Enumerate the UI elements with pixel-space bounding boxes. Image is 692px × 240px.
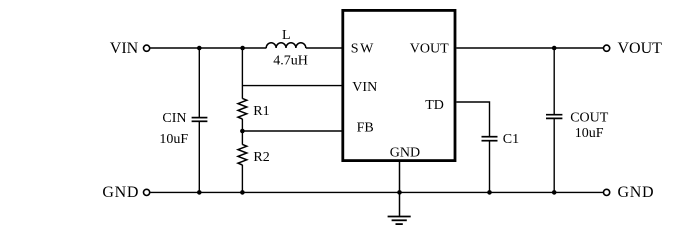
junction IC-GND/GND node <box>397 190 402 195</box>
wire inductor to SW pin <box>306 47 342 49</box>
junction VIN/R-divider node <box>240 46 245 51</box>
capacitor C1 <box>482 137 498 141</box>
wire IC GND pin to earth <box>399 161 401 216</box>
svg-text:COUT: COUT <box>570 110 609 125</box>
wire COUT to GND rail <box>553 119 555 192</box>
wire GND rail <box>150 191 603 193</box>
wire FB junction to R2 <box>241 131 243 145</box>
svg-text:CIN: CIN <box>162 111 186 126</box>
wire COUT branch upper <box>553 48 555 114</box>
svg-text:VIN: VIN <box>110 40 139 57</box>
node GND right terminal <box>604 189 610 195</box>
wire CIN branch lower <box>198 122 200 192</box>
IC U1 body <box>343 10 455 160</box>
wire R1 to FB junction <box>241 119 243 131</box>
junction R2/GND node <box>240 190 245 195</box>
node GND left terminal <box>144 189 150 195</box>
svg-text:10uF: 10uF <box>159 132 188 147</box>
svg-text:L: L <box>282 28 291 43</box>
capacitor COUT <box>546 115 562 119</box>
svg-text:4.7uH: 4.7uH <box>273 53 308 68</box>
junction VIN/CIN node <box>197 46 202 51</box>
svg-text:TD: TD <box>425 98 444 113</box>
wire R2 to GND rail <box>241 165 243 193</box>
wire R-divider upper <box>241 48 243 99</box>
resistor R2 <box>238 144 247 165</box>
svg-text:R2: R2 <box>253 150 269 165</box>
wire VIN pin tap <box>242 85 341 87</box>
ground symbol <box>388 217 411 225</box>
svg-text:FB: FB <box>357 120 374 135</box>
wire CIN branch upper <box>198 48 200 117</box>
node VOUT output terminal <box>604 45 610 51</box>
svg-text:R1: R1 <box>253 104 269 119</box>
junction FB divider node <box>240 129 245 134</box>
wire FB pin tap <box>242 130 341 132</box>
svg-text:C1: C1 <box>503 132 519 147</box>
resistor R1 <box>238 98 247 119</box>
wire VIN terminal to inductor <box>150 47 266 49</box>
inductor L <box>266 43 306 48</box>
junction COUT/GND node <box>552 190 557 195</box>
junction VOUT/COUT node <box>552 46 557 51</box>
wire C1 to GND rail <box>489 141 491 192</box>
wire VOUT pin to output terminal <box>456 47 603 49</box>
junction CIN/GND node <box>197 190 202 195</box>
capacitor CIN <box>192 118 208 122</box>
svg-text:SW: SW <box>351 42 375 57</box>
svg-text:GND: GND <box>390 145 420 160</box>
svg-text:10uF: 10uF <box>575 126 604 141</box>
svg-text:VIN: VIN <box>352 80 377 95</box>
svg-text:VOUT: VOUT <box>410 42 449 57</box>
junction C1/GND node <box>487 190 492 195</box>
svg-text:VOUT: VOUT <box>618 40 663 57</box>
node VIN input terminal <box>144 45 150 51</box>
svg-text:GND: GND <box>102 184 139 201</box>
svg-text:GND: GND <box>618 184 655 201</box>
wire TD pin to C1 <box>456 102 489 136</box>
